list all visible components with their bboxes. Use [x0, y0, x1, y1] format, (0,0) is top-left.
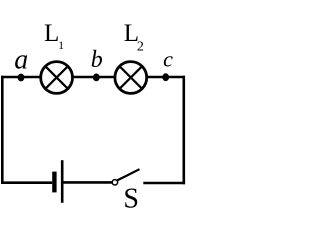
svg-text:1: 1	[58, 40, 64, 52]
svg-text:2: 2	[137, 40, 144, 55]
svg-text:c: c	[163, 46, 173, 71]
svg-text:S: S	[123, 184, 139, 210]
svg-text:b: b	[91, 47, 103, 73]
svg-text:a: a	[14, 45, 28, 76]
svg-text:L: L	[44, 20, 59, 47]
